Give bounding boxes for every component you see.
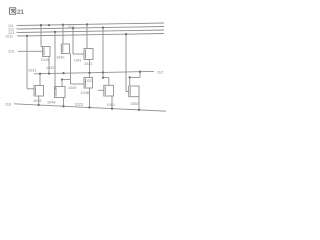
svg-text:1023: 1023 [75, 102, 83, 106]
svg-text:1031: 1031 [28, 69, 36, 73]
svg-text:112: 112 [157, 71, 163, 75]
svg-text:1022: 1022 [85, 79, 93, 83]
svg-text:1012: 1012 [68, 25, 75, 29]
svg-text:1049: 1049 [68, 86, 76, 90]
svg-text:1032: 1032 [46, 66, 54, 70]
svg-text:1011: 1011 [5, 35, 13, 39]
svg-text:1042: 1042 [56, 56, 64, 60]
svg-text:21: 21 [17, 9, 24, 16]
svg-text:1046: 1046 [81, 91, 89, 95]
svg-text:1048: 1048 [47, 101, 55, 105]
svg-text:1041: 1041 [41, 58, 49, 62]
svg-text:1021: 1021 [84, 62, 92, 66]
svg-text:1051: 1051 [107, 103, 115, 107]
svg-text:110: 110 [8, 50, 14, 54]
svg-text:1043: 1043 [74, 59, 81, 63]
svg-text:118: 118 [5, 103, 11, 107]
svg-text:1050: 1050 [130, 102, 138, 106]
svg-text:1045: 1045 [33, 99, 41, 103]
